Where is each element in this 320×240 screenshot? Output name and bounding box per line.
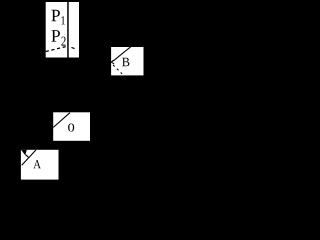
label B — [122, 58, 129, 66]
plate label box P1/P2 (white patch) — [46, 2, 79, 58]
dashed ray from B down-right — [113, 65, 122, 74]
label P2 — [51, 30, 60, 42]
label A — [33, 160, 41, 168]
dashed ray leaving plate toward B — [71, 47, 79, 50]
solid ray toward A box corner — [22, 150, 36, 165]
arrowhead at B — [111, 60, 114, 64]
point A label box (white patch) — [21, 150, 59, 180]
arrowhead at A — [21, 150, 27, 156]
dashed ray rising to plate — [46, 46, 68, 51]
solid ray into B — [113, 47, 131, 61]
label O — [68, 123, 74, 131]
plate line (vertical mirror/plate) — [67, 2, 69, 58]
point B label box (white patch) — [111, 47, 143, 75]
solid ray through O box — [53, 113, 70, 128]
point O label box (white patch) — [53, 112, 90, 141]
label P1 — [51, 10, 59, 21]
dashed stub from A arrowhead — [25, 155, 28, 158]
